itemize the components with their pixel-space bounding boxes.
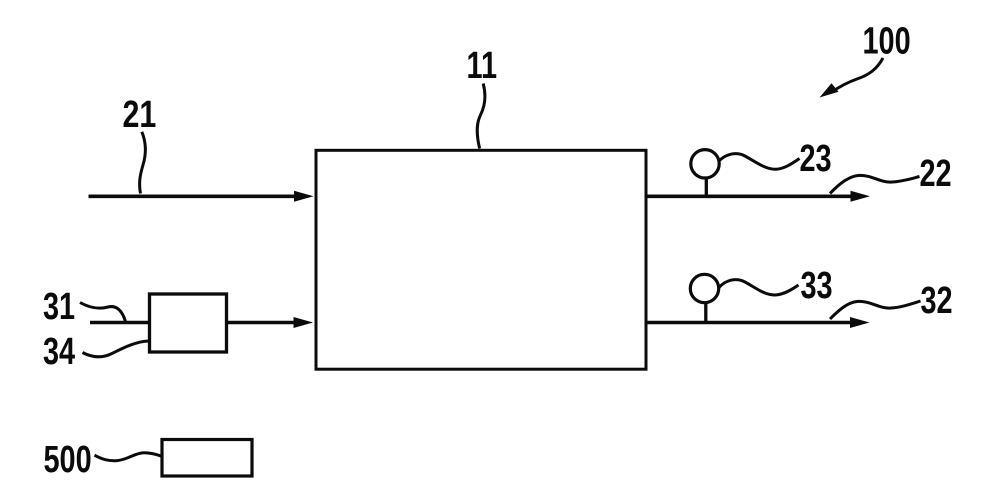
sensor circle 23 (691, 150, 719, 178)
block 11 main rectangle (316, 150, 646, 369)
wire from small block to block 11 (227, 321, 298, 325)
wire output 32 (646, 321, 852, 325)
label 11 (467, 44, 498, 87)
label 32 (921, 279, 953, 322)
wire input 21 (89, 195, 301, 199)
svg-text:32: 32 (921, 279, 953, 322)
label 33 (801, 264, 833, 307)
leader squiggle for 23 (719, 154, 800, 170)
leader line for 21 (140, 132, 146, 194)
sensor stem 23 (705, 178, 708, 195)
leader squiggle for 500 (95, 453, 162, 461)
label 34 (43, 330, 75, 373)
leader line for 11 (477, 84, 485, 149)
block between 31/34 (small rectangle) (150, 294, 227, 352)
leader squiggle for 22 (830, 175, 920, 193)
arrowhead into block 11 (bottom input) (294, 317, 314, 328)
label 21 (123, 94, 157, 136)
arrowhead into block 11 (top input) (294, 191, 314, 202)
arrow leader for 100 (831, 58, 883, 93)
svg-text:11: 11 (467, 44, 498, 87)
leader squiggle for 33 (719, 280, 799, 295)
leader squiggle for 31 (80, 303, 126, 322)
svg-text:100: 100 (863, 20, 911, 63)
svg-text:500: 500 (44, 438, 92, 481)
svg-text:34: 34 (43, 330, 75, 373)
arrowhead output 22 (851, 191, 871, 202)
label 22 (920, 152, 952, 195)
svg-text:21: 21 (123, 94, 157, 136)
leader squiggle for 34 (83, 341, 149, 357)
sensor circle 33 (690, 274, 718, 302)
label 100 (863, 20, 911, 63)
svg-text:33: 33 (801, 264, 833, 307)
label 23 (800, 137, 832, 180)
svg-text:23: 23 (800, 137, 832, 180)
sensor stem 33 (704, 303, 707, 322)
svg-text:22: 22 (920, 152, 952, 195)
label 500 (44, 438, 92, 481)
svg-text:31: 31 (43, 285, 75, 328)
arrowhead output 32 (850, 317, 870, 328)
wire output 22 (646, 195, 852, 199)
block 500 (small rectangle) (162, 440, 252, 477)
wire input 31 (90, 321, 149, 325)
label 31 (43, 285, 75, 328)
leader squiggle for 32 (830, 301, 921, 319)
